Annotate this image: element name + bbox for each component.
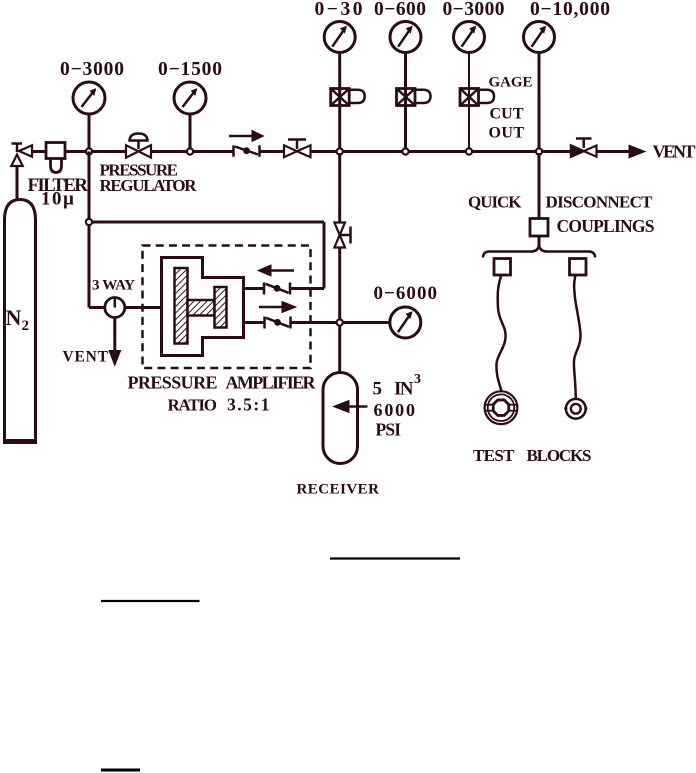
flow arrow right on main line xyxy=(229,131,264,142)
svg-text:2: 2 xyxy=(22,318,30,334)
node 0-1500 gauge junction xyxy=(187,148,193,154)
svg-text:VENT: VENT xyxy=(653,142,696,162)
svg-text:OUT: OUT xyxy=(489,125,525,142)
N2 cylinder xyxy=(3,200,37,442)
amplifier piston rod (hatched) xyxy=(188,300,215,316)
gauge G1 0-3000 xyxy=(73,82,105,148)
svg-text:PSI: PSI xyxy=(376,420,402,440)
gage cut out valve on 0-3000 line xyxy=(460,89,494,106)
quick disconnect coupling right xyxy=(570,259,587,276)
check valve CV3 amplifier outlet xyxy=(244,317,340,329)
rule blank line 2 xyxy=(101,600,200,602)
svg-text:6000: 6000 xyxy=(374,400,416,420)
quick disconnect coupling main xyxy=(530,219,548,237)
gauge G3 0-30 xyxy=(324,22,355,151)
svg-text:QUICK: QUICK xyxy=(468,193,522,212)
receiver vessel xyxy=(323,373,358,464)
node 0-30 gauge junction xyxy=(337,148,343,154)
vent arrow xyxy=(629,145,645,158)
svg-text:RECEIVER: RECEIVER xyxy=(297,482,380,498)
svg-text:0−10,000: 0−10,000 xyxy=(530,0,610,20)
rule blank line 3 xyxy=(101,769,140,772)
pressure amplifier dashed enclosure xyxy=(143,246,311,369)
filter F1 xyxy=(46,143,65,173)
gauge G5 0-3000 top xyxy=(454,22,485,151)
wire main horizontal supply line xyxy=(32,150,630,153)
wire regulated branch down from filter node xyxy=(89,152,324,308)
receiver isolation valve V4 xyxy=(334,153,350,373)
svg-text:COUPLINGS: COUPLINGS xyxy=(557,216,655,236)
vent valve V3 top right xyxy=(571,139,597,157)
hose right xyxy=(574,275,581,399)
node receiver gauge junction xyxy=(337,319,343,325)
hose left xyxy=(496,275,505,391)
svg-text:3: 3 xyxy=(414,372,421,387)
quick disconnect drop line xyxy=(538,153,541,219)
test block left xyxy=(485,391,518,424)
svg-text:AMPLIFIER: AMPLIFIER xyxy=(226,373,317,393)
test block right xyxy=(564,399,587,419)
svg-text:DISCONNECT: DISCONNECT xyxy=(546,193,654,212)
receiver pointer arrow xyxy=(334,401,368,413)
node 0-600 gauge junction xyxy=(402,148,408,154)
svg-text:IN: IN xyxy=(394,379,414,400)
rule blank line 1 xyxy=(330,557,460,559)
svg-text:0−3000: 0−3000 xyxy=(60,59,124,80)
svg-text:3.5:1: 3.5:1 xyxy=(227,395,270,415)
svg-text:PRESSURE: PRESSURE xyxy=(128,373,218,393)
svg-text:CUT: CUT xyxy=(490,106,524,123)
pressure amplifier body xyxy=(162,258,244,356)
gauge G6 0-10,000 xyxy=(524,22,555,151)
svg-text:VENT: VENT xyxy=(63,349,109,366)
node 0-10,000 gauge junction xyxy=(536,148,542,154)
gauge G4 0-600 xyxy=(390,22,421,151)
svg-text:3 WAY: 3 WAY xyxy=(92,278,135,294)
svg-text:BLOCKS: BLOCKS xyxy=(527,446,592,465)
check valve CV2 amplifier inlet xyxy=(244,283,291,295)
svg-text:GAGE: GAGE xyxy=(489,75,533,91)
gauge G2 0-1500 xyxy=(174,82,206,148)
node amplifier feedback junction xyxy=(86,219,92,225)
svg-text:0−1500: 0−1500 xyxy=(158,59,222,80)
svg-text:RATIO: RATIO xyxy=(168,396,218,415)
svg-text:0−600: 0−600 xyxy=(374,0,426,20)
svg-text:REGULATOR: REGULATOR xyxy=(100,176,198,195)
flow arrow left above top check valve xyxy=(258,265,294,276)
node 0-3000 gauge junction xyxy=(466,148,472,154)
svg-text:0−30: 0−30 xyxy=(315,0,363,20)
wire stem below coupling xyxy=(538,236,541,246)
gage cut out valve on 0-30 line xyxy=(331,89,365,106)
quick disconnect coupling left xyxy=(494,259,511,276)
valve V1 cylinder shutoff xyxy=(11,144,32,201)
svg-text:TEST: TEST xyxy=(473,446,515,465)
check valve CV1 on main line xyxy=(234,145,260,156)
flow arrow right above bottom check valve xyxy=(259,302,296,313)
svg-text:N: N xyxy=(6,305,22,330)
amplifier piston large (hatched) xyxy=(175,268,188,344)
amplifier piston small (hatched) xyxy=(215,287,227,328)
node main line / left gauge junction xyxy=(86,148,92,154)
shutoff valve V2 on main line xyxy=(284,140,311,158)
3 way valve xyxy=(89,298,162,366)
pressure regulator PR1 xyxy=(126,134,151,158)
gage cut out valve on 0-600 line xyxy=(397,89,431,106)
svg-text:0−3000: 0−3000 xyxy=(443,0,505,20)
svg-text:10µ: 10µ xyxy=(41,189,74,210)
gauge G7 0-6000 xyxy=(343,307,421,338)
brace manifold split xyxy=(483,246,595,258)
svg-text:0−6000: 0−6000 xyxy=(374,283,438,304)
svg-text:5: 5 xyxy=(373,379,383,400)
